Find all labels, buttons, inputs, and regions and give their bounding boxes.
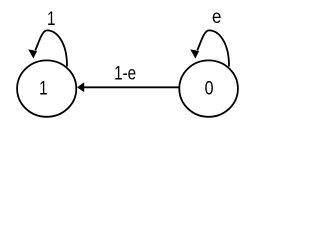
state circle 1 (left node) [17,60,76,116]
self-loop on state 0 [197,30,229,66]
svg-text:0: 0 [205,77,214,99]
svg-text:e: e [212,6,221,27]
self-loop on state 1 [35,30,67,66]
svg-text:1-e: 1-e [114,62,136,84]
state diagram: two-state Markov chain [0,0,255,134]
wire: transition arrow shaft from state 0 to state 1 [84,86,179,88]
state circle 0 (right node) [179,60,238,116]
svg-text:1: 1 [39,77,47,99]
arrowhead of self-loop on state 0 [190,49,199,58]
arrowhead of 0->1 transition [77,82,84,92]
arrowhead of self-loop on state 1 [28,49,37,58]
svg-text:1: 1 [47,7,55,29]
